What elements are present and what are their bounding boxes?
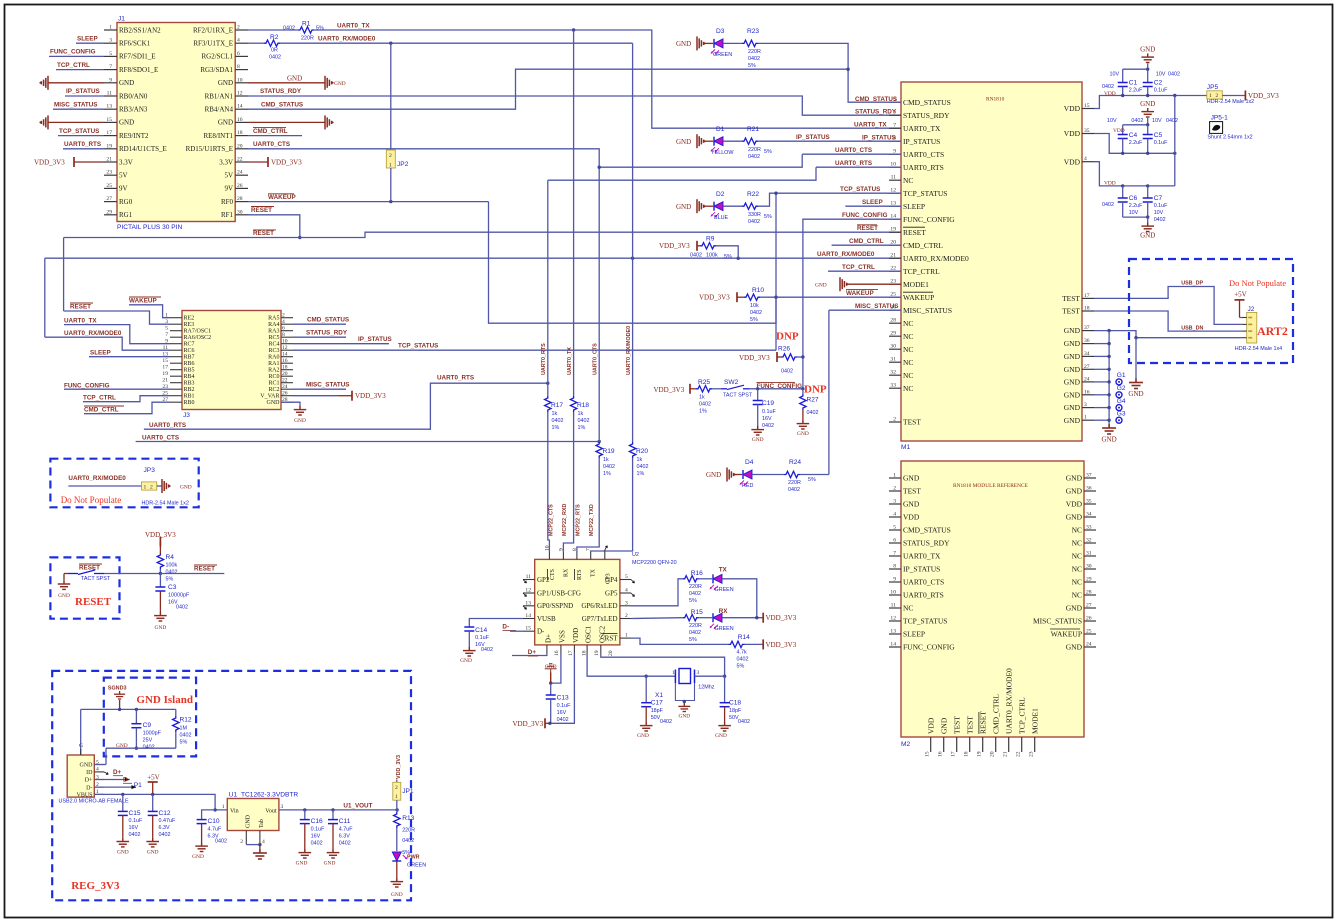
svg-text:R23: R23: [747, 28, 759, 35]
svg-text:FUNC_CONFIG: FUNC_CONFIG: [64, 383, 110, 390]
svg-text:30: 30: [890, 344, 896, 350]
svg-text:D4: D4: [745, 459, 754, 466]
U2 bottom pins: [546, 645, 548, 653]
svg-text:NC: NC: [903, 319, 913, 328]
svg-text:0402: 0402: [215, 839, 227, 845]
svg-text:UART0_TX: UART0_TX: [903, 124, 941, 133]
svg-text:100k: 100k: [166, 563, 178, 569]
svg-text:30: 30: [1086, 564, 1092, 570]
svg-text:TCP_CTRL: TCP_CTRL: [57, 62, 90, 69]
svg-text:STATUS_RDY: STATUS_RDY: [306, 330, 348, 337]
wire UART0_RTS jog: [548, 167, 816, 180]
wire IP_STATUS to pin8: [758, 140, 901, 142]
svg-text:3: 3: [1084, 402, 1087, 408]
svg-text:0402: 0402: [748, 56, 760, 62]
svg-text:OSC1: OSC1: [585, 625, 593, 643]
svg-text:5V: 5V: [224, 172, 233, 180]
wire UART0_CTS jog: [599, 154, 802, 167]
wire GND J1.16: [248, 121, 325, 123]
svg-text:GND: GND: [903, 474, 920, 483]
U2 left pins: [523, 579, 535, 581]
svg-text:RESET: RESET: [75, 596, 112, 608]
capacitor C4 2.2uF: [1123, 124, 1148, 126]
svg-text:GND: GND: [637, 733, 649, 739]
svg-text:VDD_3V3: VDD_3V3: [34, 158, 65, 166]
svg-text:0402: 0402: [807, 410, 819, 416]
svg-text:5%: 5%: [689, 637, 697, 643]
svg-text:RESET: RESET: [857, 225, 878, 232]
svg-text:GND: GND: [1066, 513, 1083, 522]
svg-text:NC: NC: [903, 332, 913, 341]
svg-text:UART0_RTS: UART0_RTS: [149, 422, 186, 429]
wire CMD_CTRL to J3 RB0: [84, 402, 170, 414]
svg-text:9V: 9V: [119, 185, 128, 193]
svg-text:M1: M1: [901, 444, 910, 451]
svg-text:0.1uF: 0.1uF: [1154, 87, 1168, 93]
svg-text:DNP: DNP: [804, 383, 827, 395]
U2 top pin stubs: [548, 552, 550, 559]
svg-text:5V: 5V: [119, 172, 128, 180]
svg-text:2: 2: [237, 25, 240, 31]
svg-text:UART0_RX/MODE0: UART0_RX/MODE0: [626, 326, 632, 375]
svg-text:RG0: RG0: [119, 198, 133, 206]
svg-text:GP2: GP2: [537, 576, 550, 584]
svg-text:JP5-1: JP5-1: [1211, 115, 1229, 122]
svg-text:RE3: RE3: [184, 322, 195, 328]
svg-text:RF0: RF0: [221, 198, 234, 206]
wire MISC_STATUS to pin26: [829, 309, 901, 311]
svg-text:STATUS_RDY: STATUS_RDY: [903, 111, 950, 120]
wire TCP_STATUS to pin12: [758, 193, 901, 206]
svg-text:GP5: GP5: [605, 589, 618, 597]
svg-text:5%: 5%: [748, 63, 756, 69]
svg-text:16V: 16V: [762, 416, 772, 422]
resistor R12: [175, 709, 177, 716]
P1 pins: [94, 764, 104, 766]
svg-text:2.2uF: 2.2uF: [1129, 140, 1143, 146]
svg-text:GND: GND: [815, 283, 827, 289]
svg-text:31: 31: [890, 357, 896, 363]
module M1 RN1810 body: [901, 82, 1082, 441]
crystal case ground loop: [675, 683, 684, 703]
svg-text:JP2: JP2: [397, 161, 409, 168]
svg-text:GND: GND: [460, 658, 472, 664]
svg-text:1k: 1k: [552, 411, 558, 417]
wire J2 pin4 / GND37 to ground: [1094, 331, 1242, 338]
header J2: [1247, 312, 1257, 343]
dashed box RESET: [50, 557, 119, 618]
svg-text:23: 23: [1029, 751, 1035, 757]
wire UART0_RX/MODE0 long run to RN1810 pin21: [45, 257, 901, 259]
svg-text:RE2: RE2: [184, 316, 195, 322]
svg-text:28: 28: [1086, 590, 1092, 596]
svg-text:4.7k: 4.7k: [737, 650, 747, 656]
svg-text:36: 36: [1084, 338, 1090, 344]
svg-text:2: 2: [150, 484, 153, 490]
wire UART0_CTS long run: [136, 441, 600, 443]
svg-text:C1: C1: [1129, 79, 1138, 86]
svg-text:STATUS_RDY: STATUS_RDY: [260, 88, 302, 95]
svg-text:UART0_RX/MODE0: UART0_RX/MODE0: [1005, 668, 1014, 734]
svg-text:18: 18: [282, 365, 288, 371]
connector J3 body: [182, 311, 281, 410]
wire JP2 to WAKEUP line: [390, 168, 392, 202]
wire UART0_TX to J3 RC7: [64, 325, 170, 344]
svg-text:10V: 10V: [1129, 210, 1139, 216]
switch SW1 TACT SPST (reset): [68, 573, 78, 575]
svg-text:RE8/INT1: RE8/INT1: [203, 132, 233, 140]
svg-text:SGND3: SGND3: [108, 686, 127, 692]
svg-text:C9: C9: [143, 722, 152, 729]
svg-text:RESET: RESET: [903, 228, 926, 237]
svg-text:UART0_RX/MODE0: UART0_RX/MODE0: [318, 36, 376, 43]
svg-text:SLEEP: SLEEP: [77, 36, 98, 43]
svg-text:GND: GND: [245, 814, 251, 828]
svg-text:23: 23: [106, 170, 112, 176]
svg-text:4: 4: [625, 588, 628, 594]
crystal X1 12Mhz: [646, 675, 675, 677]
wire island to P1 GND pin: [105, 748, 107, 764]
svg-text:Vout: Vout: [265, 808, 277, 814]
capacitor C6 2.2uF: [1122, 186, 1124, 198]
svg-text:20: 20: [282, 371, 288, 377]
svg-text:1: 1: [893, 473, 896, 479]
resistor R15: [683, 615, 699, 621]
svg-text:UART0_RX/MODE0: UART0_RX/MODE0: [68, 475, 126, 482]
svg-text:0402: 0402: [737, 657, 749, 663]
svg-text:17: 17: [106, 130, 112, 136]
svg-text:CMD_CTRL: CMD_CTRL: [992, 694, 1001, 734]
svg-text:VDD: VDD: [927, 717, 936, 734]
svg-text:1M: 1M: [180, 726, 188, 732]
svg-text:22: 22: [1016, 751, 1022, 757]
svg-text:28: 28: [890, 318, 896, 324]
resistor R27 (DNP): [802, 389, 804, 394]
svg-text:FUNC_CONFIG: FUNC_CONFIG: [757, 383, 803, 390]
wire VUSB to C14: [469, 619, 523, 628]
svg-text:RB1: RB1: [184, 394, 195, 400]
svg-text:UART0_RTS: UART0_RTS: [835, 160, 872, 167]
svg-text:GND: GND: [1140, 100, 1155, 108]
svg-text:C2: C2: [1154, 79, 1163, 86]
svg-text:5%: 5%: [689, 598, 697, 604]
svg-text:2.2uF: 2.2uF: [1129, 203, 1143, 209]
wire TCP_STATUS vertical to RN1810: [775, 193, 777, 350]
svg-text:13: 13: [525, 600, 531, 606]
wire P1 GND to island: [94, 764, 106, 766]
svg-text:UART0_CTS: UART0_CTS: [835, 147, 872, 154]
svg-text:WAKEUP: WAKEUP: [903, 293, 934, 302]
svg-text:15: 15: [162, 358, 168, 364]
svg-text:17: 17: [1084, 293, 1090, 299]
svg-text:RC4: RC4: [268, 342, 279, 348]
svg-text:G3: G3: [1117, 410, 1126, 417]
svg-text:1: 1: [395, 794, 398, 800]
svg-text:TCP_STATUS: TCP_STATUS: [903, 189, 947, 198]
svg-text:J2: J2: [1248, 306, 1255, 313]
svg-text:VDD: VDD: [1064, 104, 1081, 113]
svg-text:R19: R19: [603, 448, 615, 455]
svg-text:0.1uF: 0.1uF: [557, 703, 571, 709]
svg-text:0402: 0402: [481, 647, 493, 653]
svg-text:0402: 0402: [143, 745, 155, 751]
VSS pin to GND, C13: [551, 653, 561, 683]
svg-text:RESET: RESET: [194, 566, 215, 573]
svg-text:RA0: RA0: [268, 355, 279, 361]
svg-text:0.1uF: 0.1uF: [762, 409, 776, 415]
svg-text:3.3V: 3.3V: [219, 158, 233, 166]
svg-text:4: 4: [237, 38, 240, 44]
svg-text:5%: 5%: [180, 740, 188, 746]
svg-text:REG_3V3: REG_3V3: [71, 880, 120, 892]
svg-text:10V: 10V: [1152, 118, 1162, 124]
svg-text:MISC_STATUS: MISC_STATUS: [54, 101, 98, 108]
svg-text:BLUE: BLUE: [714, 215, 728, 221]
svg-text:1k: 1k: [603, 457, 609, 463]
dashed box GND Island: [104, 678, 196, 757]
svg-text:UART0_RX/MODE0: UART0_RX/MODE0: [64, 330, 122, 337]
svg-text:TCP_STATUS: TCP_STATUS: [903, 617, 947, 626]
connector J1 PICTAIL PLUS 30 PIN body: [117, 23, 235, 222]
svg-text:14: 14: [890, 642, 896, 648]
svg-text:TEST: TEST: [953, 716, 962, 734]
svg-text:RC5: RC5: [268, 335, 279, 341]
svg-text:0402: 0402: [690, 252, 702, 258]
svg-text:STATUS_RDY: STATUS_RDY: [903, 539, 950, 548]
svg-text:R15: R15: [691, 609, 703, 616]
svg-text:IP_STATUS: IP_STATUS: [862, 135, 896, 142]
svg-text:NC: NC: [903, 384, 913, 393]
svg-text:0402: 0402: [689, 591, 701, 597]
svg-text:UART0_RX/MODE0: UART0_RX/MODE0: [903, 254, 969, 263]
svg-text:SW2: SW2: [724, 379, 739, 386]
svg-text:RC1: RC1: [268, 381, 279, 387]
ground at C14: [463, 647, 476, 656]
svg-text:10: 10: [890, 590, 896, 596]
svg-text:MCP22_TXD: MCP22_TXD: [589, 504, 595, 536]
svg-text:1: 1: [625, 633, 628, 639]
M1 VDD pins 15/35/4: [1082, 108, 1094, 110]
capacitor C5 0.1uF: [1147, 125, 1149, 135]
svg-text:TEST: TEST: [903, 418, 921, 427]
svg-text:GND: GND: [715, 733, 727, 739]
svg-text:19: 19: [106, 143, 112, 149]
power flag VDD_3V3 at JP5: [1244, 91, 1246, 101]
svg-text:20: 20: [237, 143, 243, 149]
svg-text:0402: 0402: [129, 832, 141, 838]
wire TEST18 to J2 via USB_DN: [1094, 311, 1242, 331]
svg-text:RB6: RB6: [184, 361, 195, 367]
ground flag at JP3: [162, 479, 169, 493]
IC U2 MCP2200 QFN-20 body: [535, 559, 620, 645]
svg-text:SLEEP: SLEEP: [862, 199, 883, 206]
svg-text:GND: GND: [706, 471, 721, 479]
capacitor C18: [724, 676, 726, 703]
svg-text:37: 37: [1086, 473, 1092, 479]
module M2 RN1810 MODULE REFERENCE body: [901, 461, 1084, 737]
ground flag J1.9: [41, 76, 48, 90]
svg-text:VDD_3V3: VDD_3V3: [513, 720, 544, 728]
svg-text:C10: C10: [208, 818, 220, 825]
svg-text:R9: R9: [706, 236, 715, 243]
svg-text:0402: 0402: [1154, 217, 1166, 223]
svg-text:19: 19: [890, 227, 896, 233]
svg-text:RESET: RESET: [70, 304, 91, 311]
svg-text:5: 5: [625, 574, 628, 580]
svg-text:26: 26: [237, 183, 243, 189]
M1 TEST and GND pins right side: [1082, 297, 1094, 299]
svg-text:UART0_RTS: UART0_RTS: [903, 591, 944, 600]
svg-text:RA3: RA3: [268, 329, 279, 335]
svg-text:VDD: VDD: [1066, 500, 1083, 509]
wire CMD_STATUS J1 to LED node: [248, 69, 848, 109]
svg-text:4: 4: [96, 767, 99, 773]
svg-text:UART0_RTS: UART0_RTS: [437, 375, 474, 382]
wire CMD_STATUS LED node to pin5: [758, 43, 901, 102]
wire WAKEUP routing from J1: [489, 202, 777, 324]
svg-text:RTS: RTS: [577, 569, 583, 580]
svg-text:DNP: DNP: [776, 330, 799, 342]
svg-text:RA2: RA2: [268, 368, 279, 374]
svg-text:RA4: RA4: [268, 322, 279, 328]
ground at C12: [146, 838, 159, 847]
capacitor C3: [159, 574, 161, 588]
svg-text:GND: GND: [180, 484, 192, 490]
wire R2 node to JP2: [390, 43, 392, 150]
svg-text:C15: C15: [129, 810, 141, 817]
svg-text:13: 13: [890, 629, 896, 635]
wire FUNC_CONFIG vertical to pin14: [803, 219, 901, 389]
wire WAKEUP to pin25: [760, 296, 901, 298]
svg-text:TC1262-3.3VDBTR: TC1262-3.3VDBTR: [241, 792, 298, 799]
svg-text:R14: R14: [738, 634, 750, 641]
svg-text:GND: GND: [147, 850, 159, 856]
svg-text:8: 8: [893, 564, 896, 570]
wire R9 to UART0_RX/MODE0 line: [716, 246, 738, 258]
svg-text:SLEEP: SLEEP: [903, 202, 925, 211]
svg-text:WAKEUP: WAKEUP: [268, 194, 296, 201]
svg-text:R24: R24: [789, 459, 801, 466]
svg-text:SLEEP: SLEEP: [903, 630, 925, 639]
svg-text:GREEN: GREEN: [407, 863, 426, 869]
svg-text:R17: R17: [551, 402, 563, 409]
svg-text:C6: C6: [1129, 195, 1138, 202]
svg-text:27: 27: [106, 196, 112, 202]
svg-text:GND: GND: [58, 593, 70, 599]
svg-text:ART2: ART2: [1257, 324, 1288, 338]
svg-text:GND: GND: [1066, 643, 1083, 652]
svg-text:RED: RED: [742, 483, 753, 489]
svg-text:27: 27: [1086, 603, 1092, 609]
svg-text:0402: 0402: [311, 841, 323, 847]
svg-text:36: 36: [1086, 486, 1092, 492]
svg-text:3: 3: [281, 804, 284, 810]
ground at C10: [195, 843, 208, 852]
U1 GND/Tab pins to ground: [245, 831, 247, 845]
svg-text:FUNC_CONFIG: FUNC_CONFIG: [50, 49, 96, 56]
svg-text:0.1uF: 0.1uF: [1154, 140, 1168, 146]
svg-text:U1_VOUT: U1_VOUT: [343, 803, 372, 810]
svg-text:10: 10: [544, 545, 550, 551]
svg-text:MCP22_CTS: MCP22_CTS: [549, 504, 555, 536]
svg-text:STATUS_RDY: STATUS_RDY: [855, 109, 897, 116]
M2 bottom pins: [930, 737, 932, 752]
svg-text:CMD_STATUS: CMD_STATUS: [307, 317, 349, 324]
svg-text:Vin: Vin: [230, 808, 239, 814]
svg-text:17: 17: [568, 650, 574, 656]
wire UART0_RX/MODE0 from R2: [280, 42, 633, 44]
svg-text:1k: 1k: [699, 395, 705, 401]
wire UART0_RX/MODE0 left bus down to J3: [44, 258, 46, 337]
svg-text:0402: 0402: [166, 570, 178, 576]
svg-text:220R: 220R: [689, 584, 702, 590]
svg-text:14: 14: [282, 352, 288, 358]
svg-text:21: 21: [106, 157, 112, 163]
GND bus vertical on M1 right: [1108, 331, 1110, 421]
svg-text:R1: R1: [302, 21, 311, 28]
svg-text:TX: TX: [591, 568, 597, 577]
svg-text:TEST: TEST: [1062, 294, 1080, 303]
svg-text:C19: C19: [762, 400, 774, 407]
svg-text:GP4: GP4: [605, 576, 618, 584]
svg-text:15: 15: [1084, 103, 1090, 109]
svg-text:25: 25: [106, 183, 112, 189]
svg-text:ID: ID: [86, 770, 93, 776]
svg-text:220R: 220R: [748, 147, 761, 153]
svg-text:G: G: [79, 743, 83, 749]
svg-text:D3: D3: [716, 28, 725, 35]
svg-text:6: 6: [282, 326, 285, 332]
svg-text:12: 12: [282, 345, 288, 351]
svg-text:IP_STATUS: IP_STATUS: [358, 336, 392, 343]
svg-text:GND: GND: [1064, 326, 1081, 335]
svg-text:18: 18: [1084, 306, 1090, 312]
svg-text:X1: X1: [655, 692, 663, 699]
svg-text:0402: 0402: [1168, 71, 1180, 77]
svg-text:CMD_CTRL: CMD_CTRL: [253, 128, 288, 135]
svg-text:32: 32: [890, 370, 896, 376]
svg-text:2: 2: [389, 153, 392, 159]
svg-text:5: 5: [893, 525, 896, 531]
svg-text:MCP22_RTS: MCP22_RTS: [576, 504, 582, 536]
svg-text:6.3V: 6.3V: [339, 834, 350, 840]
svg-text:C12: C12: [159, 810, 171, 817]
wire VDD vertical rail: [1174, 96, 1176, 186]
svg-text:11: 11: [107, 91, 113, 97]
svg-text:37: 37: [1084, 325, 1090, 331]
svg-text:14: 14: [525, 613, 531, 619]
vertical net UART0_RTS with resistor R17: [547, 180, 549, 396]
ground at C11: [327, 849, 340, 858]
svg-text:U1: U1: [229, 792, 238, 799]
svg-text:2: 2: [893, 486, 896, 492]
resistor R13: [396, 810, 398, 812]
svg-text:5%: 5%: [750, 317, 758, 323]
svg-text:VDD_3V3: VDD_3V3: [699, 294, 730, 302]
svg-text:FUNC_CONFIG: FUNC_CONFIG: [842, 212, 888, 219]
svg-text:34: 34: [1084, 351, 1090, 357]
svg-text:330R: 330R: [748, 212, 761, 218]
svg-text:0R: 0R: [271, 48, 278, 54]
svg-text:RESET: RESET: [79, 565, 100, 572]
capacitor C12: [152, 794, 154, 811]
svg-text:0402: 0402: [180, 733, 192, 739]
svg-text:0.47uF: 0.47uF: [159, 818, 176, 824]
svg-text:21: 21: [162, 378, 168, 384]
svg-text:GND: GND: [676, 203, 691, 211]
svg-text:0402: 0402: [1166, 118, 1178, 124]
svg-text:GND: GND: [1066, 487, 1083, 496]
